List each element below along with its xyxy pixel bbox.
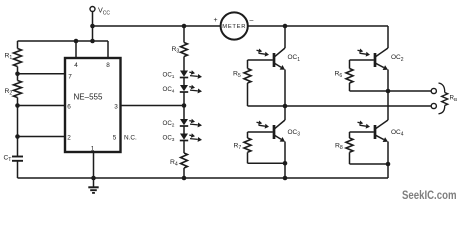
wire OC4 emitter vertical — [387, 142, 389, 165]
resistor RB external load — [439, 83, 445, 93]
svg-text:+: + — [213, 17, 217, 24]
wire LED column top — [183, 26, 185, 43]
svg-text:–: – — [250, 17, 254, 24]
svg-text:METER: METER — [222, 24, 246, 30]
wire node A to RB lower terminal — [248, 105, 432, 107]
svg-text:SeekIC.com: SeekIC.com — [402, 190, 457, 202]
wire OC1 emitter vertical — [284, 70, 286, 107]
node pin8/Vcc junction — [90, 39, 95, 44]
wire R6 to node B — [349, 83, 351, 91]
svg-text:8: 8 — [106, 62, 110, 69]
terminal upper (node B) — [431, 88, 436, 93]
wire chip supply (y41) — [18, 40, 109, 42]
resistor R2 — [14, 81, 22, 98]
node pin3 junction — [182, 103, 187, 108]
wire R8 to emitter node — [349, 152, 351, 164]
bottom rail — [18, 177, 389, 179]
wire R7 to emitter node — [247, 152, 249, 163]
node B junction (OC2 emitter / OC4 collector) — [386, 89, 391, 94]
node OC4 emitter junction — [386, 162, 391, 167]
capacitor CT — [12, 156, 23, 158]
node OC3 rail junction — [283, 176, 288, 181]
transistor OC1 (phototransistor) — [273, 53, 276, 67]
wire OC2 base — [350, 59, 374, 61]
wire OC1 base — [248, 59, 273, 61]
transistor OC2 (phototransistor) — [374, 53, 377, 67]
wire OC1-OC4 LEDs — [183, 78, 185, 85]
LED OC1 — [180, 71, 188, 77]
ground — [93, 178, 95, 187]
terminal lower (node A) — [431, 103, 436, 108]
LED OC3 — [180, 134, 188, 140]
wire left column top — [17, 41, 19, 49]
wire OC4 base — [350, 131, 374, 133]
transistor OC3 (phototransistor) — [284, 106, 286, 120]
wire pin3 to LED column — [121, 105, 185, 107]
resistor R1 — [14, 49, 22, 67]
node OC3 emitter junction — [283, 161, 288, 166]
resistor R7 — [247, 132, 249, 138]
wire OC2-OC3 LEDs — [183, 126, 185, 133]
svg-text:1: 1 — [91, 145, 95, 152]
wire pin4 drop — [75, 41, 77, 58]
svg-text:3: 3 — [114, 104, 118, 111]
wire Vcc vertical — [92, 12, 94, 42]
wire pin1 to rail — [93, 152, 95, 178]
node pin4 junction — [74, 39, 79, 44]
wire top rail left (Vcc to meter +) — [93, 25, 221, 27]
wire OC3 emitter to rail — [284, 163, 286, 178]
wire OC2 emitter vertical — [387, 70, 389, 92]
meter M1 — [221, 12, 248, 39]
resistor R4 — [181, 153, 188, 168]
wire OC2 collector vertical — [387, 26, 389, 48]
svg-text:NE–555: NE–555 — [74, 93, 103, 102]
node pin6 junction — [15, 103, 20, 108]
svg-text:6: 6 — [67, 104, 71, 111]
wire R3 to OC1 LED — [183, 57, 185, 71]
resistor R3 — [181, 43, 188, 57]
node pin2 junction — [15, 134, 20, 139]
IC U1 NE-555 box — [65, 58, 121, 152]
transistor OC4 (phototransistor) — [374, 125, 377, 139]
Vcc terminal — [90, 7, 95, 12]
wire node B to RB upper terminal — [350, 90, 432, 92]
wire to pin 6 — [18, 105, 66, 107]
wire LED OC3 to R4 — [183, 141, 185, 153]
wire OC4 collector vertical (crosses node A wire) — [387, 91, 389, 120]
resistor R5 — [247, 60, 249, 69]
wire OC3 emitter vertical — [284, 142, 286, 164]
node LED column top junction — [182, 24, 187, 29]
wire R5 to node A — [247, 83, 249, 106]
node OC1 collector / meter junction — [283, 24, 288, 29]
svg-text:5: 5 — [113, 135, 117, 142]
resistor R6 — [349, 60, 351, 69]
wire top rail right (meter - to OC2 collector) — [248, 25, 388, 27]
svg-text:2: 2 — [67, 135, 71, 142]
LED OC2 — [180, 119, 188, 125]
wire R1-R2 — [17, 67, 19, 81]
wire LED OC4 to pin3 node — [183, 92, 185, 119]
svg-text:4: 4 — [74, 62, 78, 69]
wire R2 down — [17, 98, 19, 157]
wire to pin 7 — [18, 73, 66, 75]
wire OC1 collector vertical — [284, 26, 286, 48]
svg-text:N.C.: N.C. — [124, 135, 137, 142]
wire pin8 drop — [107, 41, 109, 58]
wire OC4 emitter to rail corner — [387, 164, 389, 178]
node pin1 rail junction — [91, 176, 96, 181]
wire OC3 base — [248, 131, 273, 133]
LED OC4 — [180, 85, 188, 91]
node A junction (OC1 emitter / OC3 collector) — [283, 104, 288, 109]
wire R4 to rail — [183, 168, 185, 178]
resistor R8 — [349, 132, 351, 138]
node R4 rail junction — [182, 176, 187, 181]
svg-text:7: 7 — [68, 74, 72, 81]
node pin7 junction — [15, 72, 20, 77]
wire CT to rail — [17, 161, 19, 178]
wire to pin 2 — [18, 136, 66, 138]
node Vcc top rail junction — [90, 24, 95, 29]
